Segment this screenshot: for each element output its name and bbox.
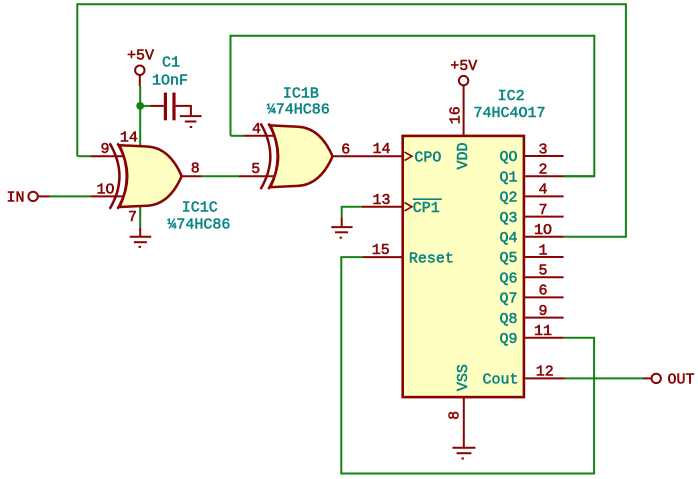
capacitor C1 bbox=[150, 93, 191, 121]
xor gate IC1C input arc bbox=[110, 143, 120, 209]
IC2 pin Cout stub bbox=[523, 377, 565, 379]
svg-text:14: 14 bbox=[372, 141, 390, 158]
port OUT circle bbox=[652, 374, 661, 383]
power +5V symbol left bbox=[135, 66, 144, 87]
IC2 pin Q2 stub bbox=[523, 195, 564, 197]
wire Cout to OUT bbox=[565, 377, 643, 379]
svg-text:1OnF: 1OnF bbox=[152, 73, 188, 90]
svg-text:Q9: Q9 bbox=[499, 331, 517, 348]
IC2 pin Q7 stub bbox=[523, 296, 564, 298]
svg-text:4: 4 bbox=[252, 121, 261, 138]
wire +5V to junction to pin14 bbox=[139, 86, 141, 147]
svg-text:14: 14 bbox=[120, 130, 138, 147]
IC2 pin Q3 stub bbox=[523, 216, 564, 218]
svg-text:Q4: Q4 bbox=[499, 230, 517, 247]
svg-text:5: 5 bbox=[251, 161, 260, 178]
port IN circle bbox=[28, 192, 37, 201]
svg-text:+5V: +5V bbox=[450, 58, 477, 75]
xor gate IC1B pin4 stub bbox=[243, 135, 276, 137]
xor gate IC1C pin10 stub bbox=[90, 195, 126, 197]
svg-text:IN: IN bbox=[7, 190, 25, 207]
svg-text:¼74HC86: ¼74HC86 bbox=[167, 217, 230, 234]
svg-text:7: 7 bbox=[128, 209, 137, 226]
svg-text:4: 4 bbox=[538, 182, 547, 199]
wire Q9 to Reset feedback bbox=[341, 257, 594, 473]
IC2 pin Q0 stub bbox=[523, 155, 564, 157]
port IN stub bbox=[38, 195, 50, 197]
svg-text:1: 1 bbox=[538, 242, 547, 259]
svg-text:IC1B: IC1B bbox=[283, 85, 319, 102]
wire IC1B pin4 to Q1 feedback bbox=[231, 36, 595, 177]
svg-text:16: 16 bbox=[448, 106, 465, 124]
svg-text:Q1: Q1 bbox=[499, 169, 517, 186]
svg-text:6: 6 bbox=[538, 283, 547, 300]
svg-text:7: 7 bbox=[538, 202, 547, 219]
wire pin8 to pin5 bbox=[202, 175, 239, 177]
svg-text:5: 5 bbox=[538, 263, 547, 280]
wire IN to pin10 bbox=[50, 195, 91, 197]
svg-text:Q8: Q8 bbox=[499, 311, 517, 328]
svg-text:6: 6 bbox=[341, 141, 350, 158]
wire pin4 corner bbox=[231, 135, 244, 137]
IC2 pin CP1 stub bbox=[362, 206, 403, 208]
IC2 pin Q4 stub bbox=[523, 236, 564, 238]
svg-text:Reset: Reset bbox=[409, 250, 454, 267]
IC2 pin CP0 clock triangle bbox=[405, 152, 412, 160]
svg-text:8: 8 bbox=[191, 161, 200, 178]
IC2 pin VSS stub bbox=[463, 397, 465, 448]
svg-text:2: 2 bbox=[538, 162, 547, 179]
svg-text:Q3: Q3 bbox=[499, 210, 517, 227]
xor gate IC1C body bbox=[120, 145, 182, 207]
svg-text:CP1: CP1 bbox=[413, 200, 440, 217]
svg-text:Q5: Q5 bbox=[499, 250, 517, 267]
svg-text:C1: C1 bbox=[162, 54, 180, 71]
IC2 body bbox=[403, 136, 524, 397]
IC2 pin Reset stub bbox=[363, 256, 404, 258]
svg-text:13: 13 bbox=[372, 192, 390, 209]
wire IC1C pin9 to Q4 feedback: left vertical bbox=[77, 4, 626, 237]
svg-text:1O: 1O bbox=[96, 181, 114, 198]
wire Q1 green stub bbox=[564, 175, 595, 177]
svg-text:9: 9 bbox=[538, 303, 547, 320]
svg-text:8: 8 bbox=[446, 411, 463, 420]
xor gate IC1C pin8 stub bbox=[182, 175, 202, 177]
svg-text:VSS: VSS bbox=[455, 364, 472, 391]
IC2 pin Q1 stub bbox=[523, 175, 564, 177]
svg-text:12: 12 bbox=[536, 364, 554, 381]
xor gate IC1B body bbox=[270, 125, 332, 187]
ground under IC1C pin7 bbox=[130, 227, 152, 247]
port OUT stub bbox=[643, 377, 652, 379]
IC2 pin CP1 clock triangle bbox=[405, 203, 412, 211]
svg-text:+5V: +5V bbox=[127, 47, 154, 64]
xor gate IC1C pin9 stub bbox=[90, 155, 126, 157]
svg-text:9: 9 bbox=[100, 141, 109, 158]
xor gate IC1B pin6 stub to IC2 CP0 bbox=[333, 155, 404, 157]
wire pin9 horizontal bbox=[77, 155, 90, 157]
svg-text:1O: 1O bbox=[534, 222, 552, 239]
wire junction to C1 bbox=[140, 105, 150, 107]
svg-text:Q6: Q6 bbox=[499, 270, 517, 287]
junction dot bbox=[136, 102, 144, 110]
svg-text:74HC4O17: 74HC4O17 bbox=[474, 105, 546, 122]
svg-text:11: 11 bbox=[534, 323, 552, 340]
svg-text:3: 3 bbox=[538, 141, 547, 158]
svg-text:Cout: Cout bbox=[482, 372, 518, 389]
ground under C1 bbox=[180, 116, 202, 127]
IC2 pin Q5 stub bbox=[523, 256, 564, 258]
svg-text:15: 15 bbox=[372, 242, 390, 259]
svg-text:Q7: Q7 bbox=[499, 291, 517, 308]
svg-text:QO: QO bbox=[499, 149, 517, 166]
IC2 pin Q9 stub bbox=[523, 337, 564, 339]
svg-text:IC2: IC2 bbox=[498, 88, 525, 105]
svg-text:OUT: OUT bbox=[668, 372, 695, 389]
svg-text:VDD: VDD bbox=[455, 142, 472, 169]
wire CP1 to ground bbox=[342, 207, 362, 218]
svg-text:¼74HC86: ¼74HC86 bbox=[267, 101, 330, 118]
svg-text:Q2: Q2 bbox=[499, 190, 517, 207]
power +5V symbol right bbox=[459, 76, 468, 136]
IC2 pin Q8 stub bbox=[523, 317, 564, 319]
ground at CP1 bbox=[331, 217, 352, 237]
svg-text:CPO: CPO bbox=[414, 149, 441, 166]
IC2 pin Q6 stub bbox=[523, 276, 564, 278]
xor gate IC1B input arc bbox=[261, 124, 271, 190]
xor gate IC1B pin5 stub bbox=[239, 175, 276, 177]
svg-text:IC1C: IC1C bbox=[182, 200, 218, 217]
wire pin7 to ground bbox=[139, 207, 141, 228]
ground at VSS bbox=[453, 448, 476, 459]
